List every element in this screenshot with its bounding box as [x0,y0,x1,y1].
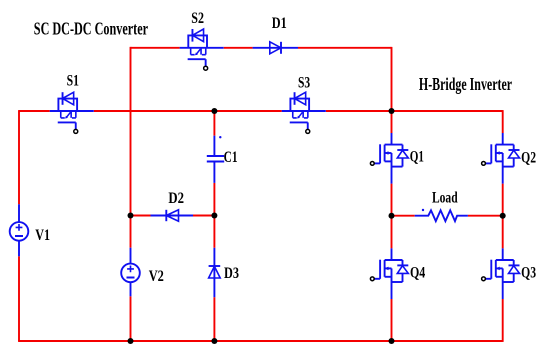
wire: left vertical top (V1 drain side) [18,110,20,204]
node: junction C1 top / main rail [211,108,217,114]
svg-text:D1: D1 [272,15,287,33]
node: junction D2 anode / V2 column [128,213,134,219]
wire: main rail segment left of S1 [19,110,50,112]
transistor Q2 [502,133,504,145]
voltage source V2 [130,248,132,264]
transistor Q4 [391,248,393,260]
wire: crossing vertical x=130 (S2 branch to D2 row) [130,47,132,216]
wire: D3 column bottom [213,297,215,341]
diode D1 [253,42,298,54]
node: junction main rail / H-bridge left leg [389,108,395,114]
node: junction load rail left [389,213,395,219]
svg-text:V1: V1 [35,226,50,244]
wire: C1 column top [213,111,215,136]
svg-text:Load: Load [432,190,458,207]
transistor S1 [50,110,94,112]
wire: H-bridge left leg Q1 drain [391,111,393,133]
wire: load rail left [392,215,415,217]
node: junction bottom rail / D3 column [211,338,217,344]
transistor Q1 [391,133,393,145]
node: junction bottom rail / H-bridge left leg [389,338,395,344]
svg-text:Q3: Q3 [521,265,536,282]
wire: V2 column above circle [130,216,132,248]
wire: C1 column bottom [213,183,215,216]
wire: H-bridge left leg Q1 source to load rail [391,184,393,216]
voltage source V1 [18,204,20,222]
wire: H-bridge left leg load rail to Q4 [391,216,393,249]
svg-text:V2: V2 [149,268,164,286]
svg-text:Q2: Q2 [521,150,536,167]
node: junction bottom rail / V2 column [128,338,134,344]
diode D2 [151,210,194,221]
node: junction load rail right [500,213,506,219]
node: junction D2 cathode / C1 column [211,213,217,219]
resistor Load [415,209,468,221]
wire: H-bridge left leg Q4 source to bottom rail [391,299,393,341]
wire: D2 row left [131,215,151,217]
wire: vertical from D1 rail down to junction [391,47,393,111]
wire: H-bridge right leg Q2 source to Q3 [502,184,504,249]
transistor S3 [282,110,326,112]
transistor S2 [180,47,224,49]
svg-text:C1: C1 [224,149,238,166]
svg-text:S3: S3 [298,75,310,92]
diode D3 [209,248,221,297]
svg-text:S2: S2 [191,9,204,27]
capacitor C1 [207,136,224,183]
wire: left vertical bottom [18,256,20,341]
wire: main rail S3 to right corner [326,110,503,112]
wire: D2 row right [193,215,214,217]
svg-text:Q4: Q4 [410,264,425,282]
wire: load rail right [468,215,503,217]
svg-text:SC DC-DC Converter: SC DC-DC Converter [34,19,148,39]
svg-text:H-Bridge Inverter: H-Bridge Inverter [419,75,512,95]
wire: S2 branch top rail [131,47,180,49]
wire: top rail D1 to corner [298,47,392,49]
wire: D3 column top [213,216,215,248]
svg-text:Q1: Q1 [410,148,424,165]
wire: H-bridge right leg Q2 drain [502,110,504,133]
svg-text:S1: S1 [67,73,79,90]
transistor Q3 [502,248,504,260]
wire: V2 column below circle [130,296,132,341]
wire: H-bridge right leg Q3 source to bottom rail [502,299,504,342]
svg-text:D2: D2 [168,190,184,208]
wire: top rail S2 to D1 [224,47,253,49]
wire: main rail S1 to S3 [94,110,282,112]
svg-text:D3: D3 [224,265,239,283]
wire: bottom rail [18,340,503,342]
